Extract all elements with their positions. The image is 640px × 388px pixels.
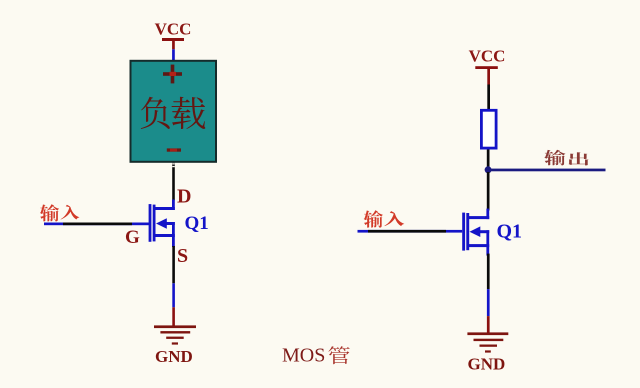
wire node to drain (right) [487, 172, 490, 211]
svg-text:D: D [177, 186, 191, 208]
svg-text:VCC: VCC [469, 47, 506, 66]
svg-text:G: G [125, 227, 140, 248]
junction dot output node [485, 166, 492, 173]
svg-text:Q1: Q1 [185, 213, 209, 234]
svg-text:MOS: MOS [282, 345, 325, 367]
svg-text:VCC: VCC [155, 19, 192, 38]
wire VCC bar to load (red+blue stem) [172, 41, 175, 61]
VCC power bar symbol (right) [475, 66, 498, 69]
load box (负载) [131, 61, 217, 162]
ground symbol (left) [154, 325, 196, 344]
input label 输入 (left) [40, 204, 79, 221]
wire source to ground (right) [487, 254, 490, 334]
ground symbol (right) [467, 332, 508, 352]
transistor Q1 (right) N-MOSFET symbol [462, 209, 489, 256]
svg-text:Q1: Q1 [497, 221, 523, 243]
wire source to ground (left) [172, 246, 175, 327]
resistor (pull-up) [481, 110, 496, 148]
output label 输出 [544, 150, 588, 166]
wire input to gate (right) [358, 230, 463, 233]
wire VCC bar to resistor [487, 69, 490, 109]
transistor Q1 (left) N-MOSFET symbol [149, 200, 175, 248]
plus terminal mark [163, 65, 182, 84]
caption char 管 [328, 346, 349, 364]
wire load bottom to drain [172, 163, 175, 201]
VCC power bar symbol (left) [162, 38, 184, 41]
svg-text:GND: GND [468, 355, 506, 374]
svg-text:S: S [177, 245, 188, 267]
wire input to gate (left) [44, 223, 150, 226]
wire resistor to output node [487, 150, 490, 172]
load label 负载 [141, 97, 206, 129]
input label 输入 (right) [364, 210, 405, 227]
minus terminal mark [167, 148, 181, 151]
wire output [488, 169, 606, 172]
svg-text:GND: GND [155, 347, 193, 366]
